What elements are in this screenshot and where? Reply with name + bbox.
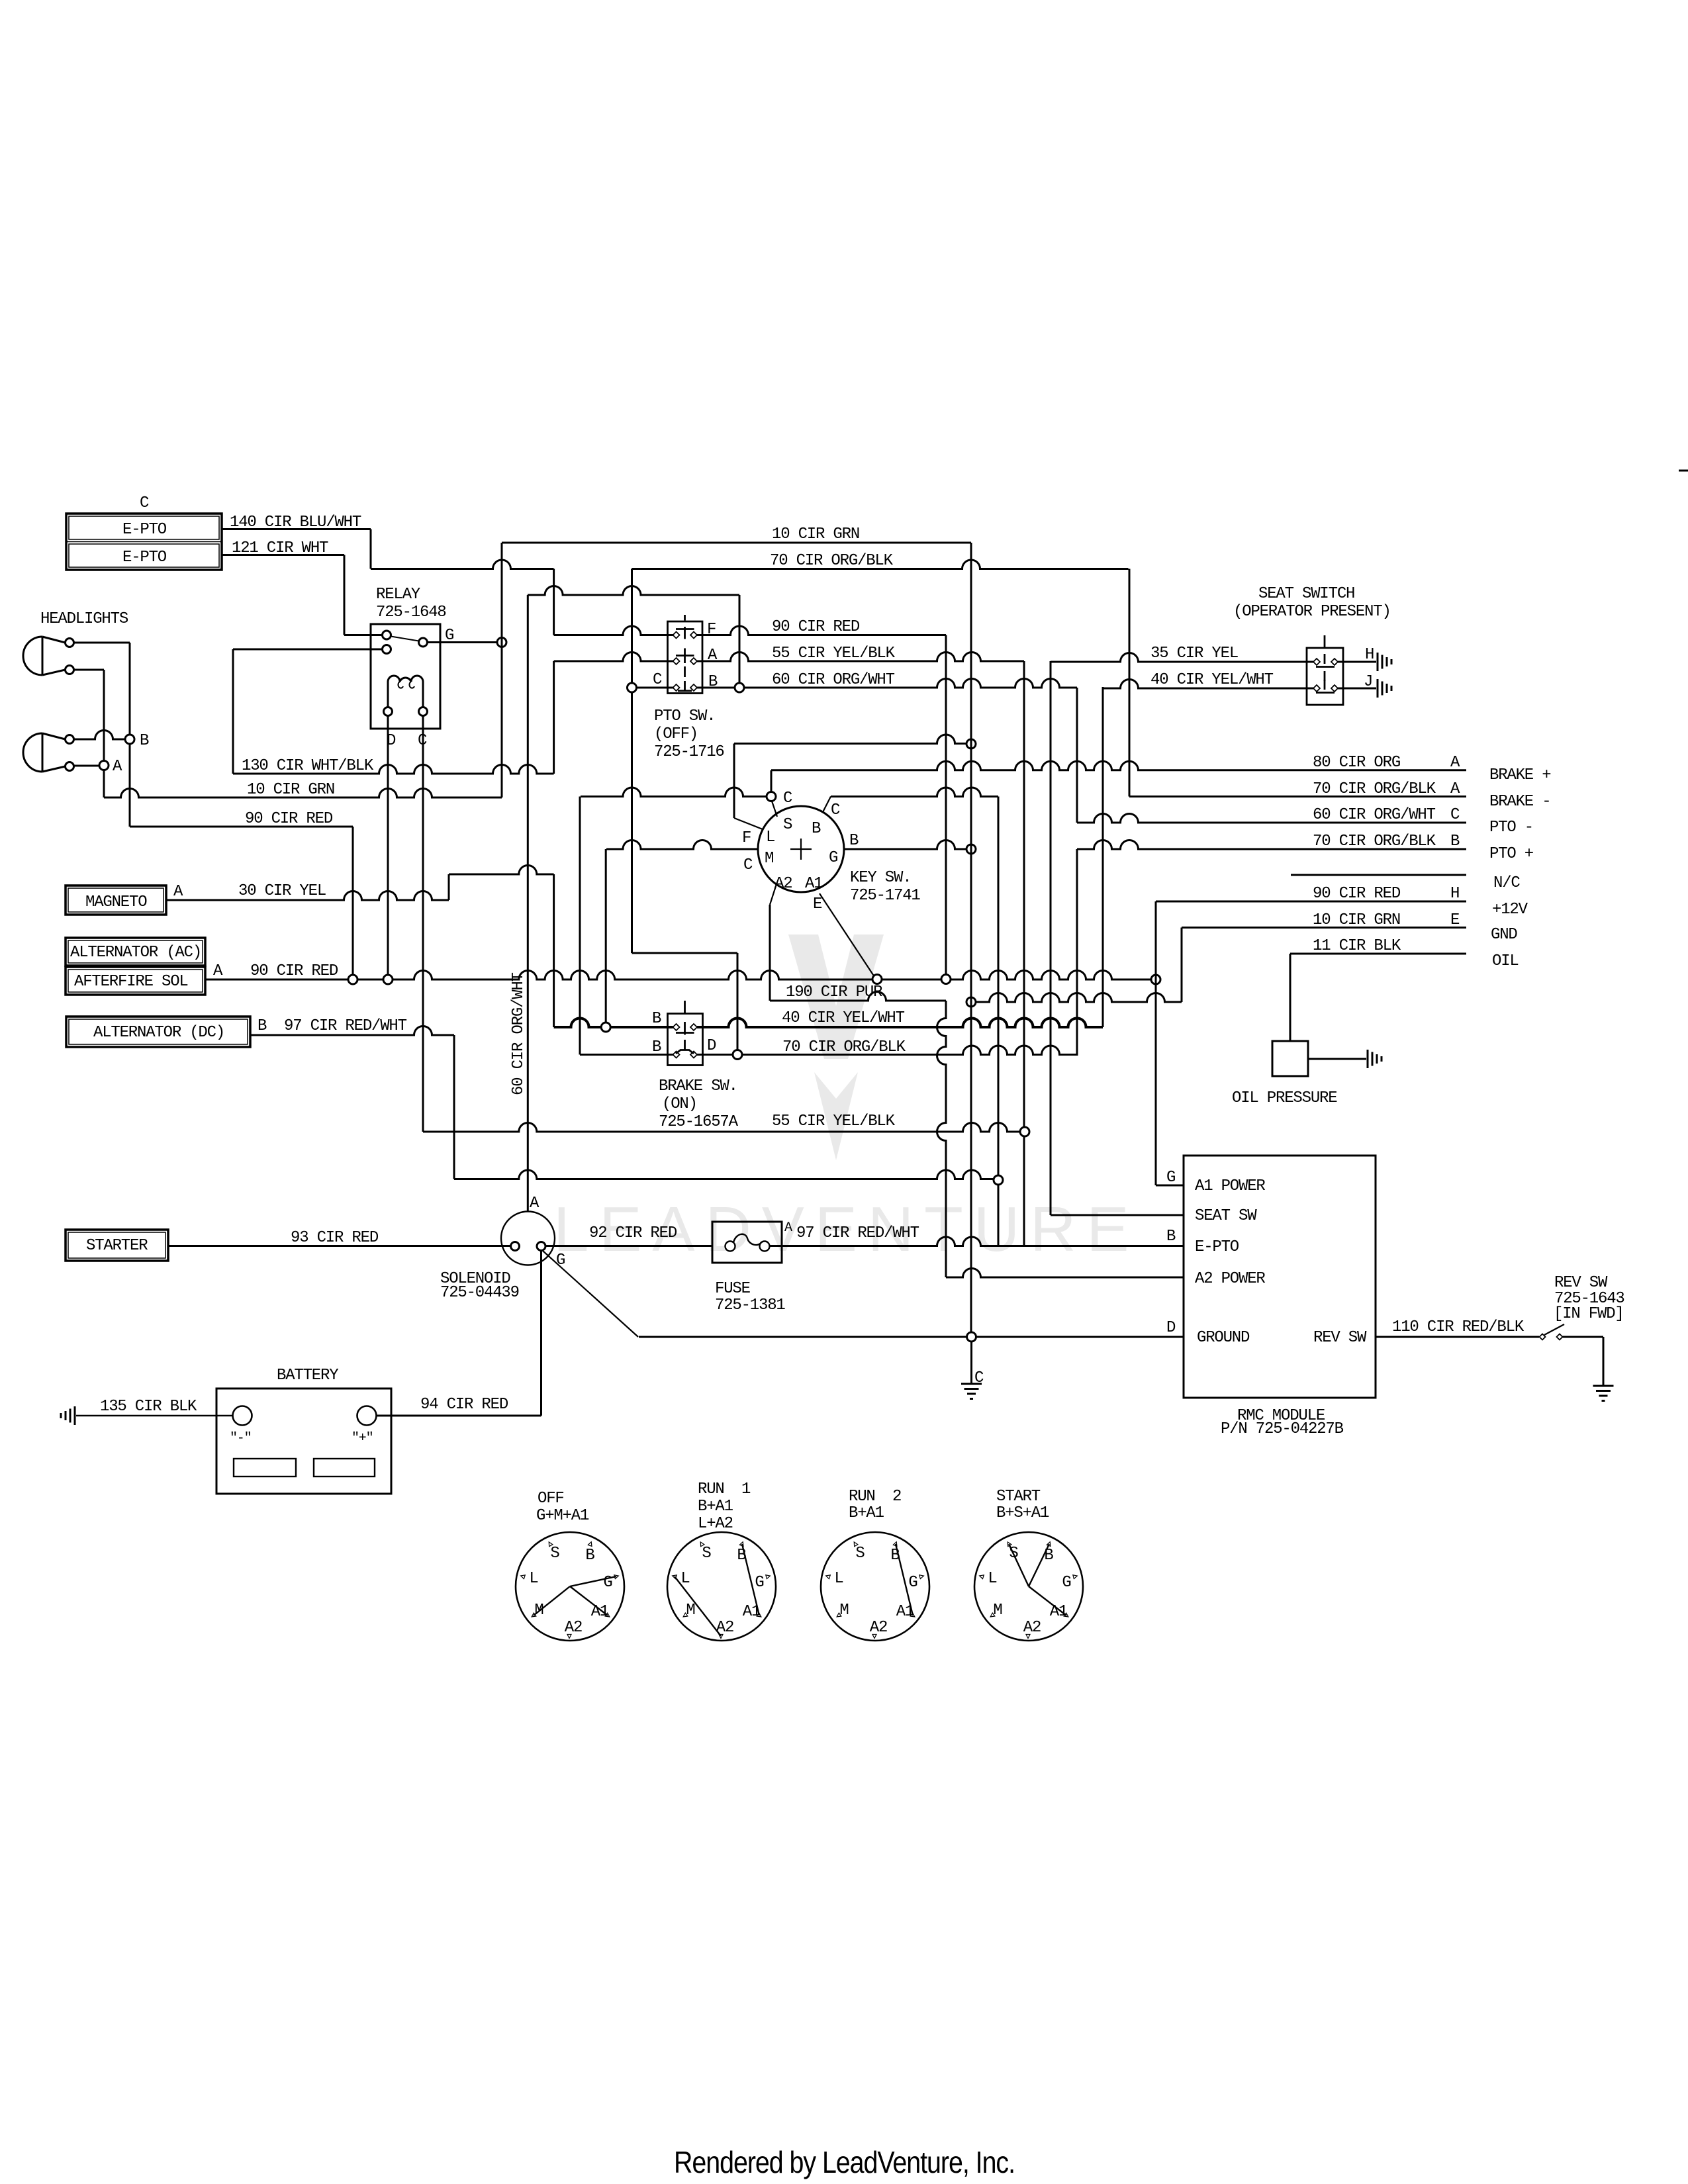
node junction 97-net/C-net [994, 1175, 1003, 1185]
node junction green bus y1514 [966, 997, 976, 1007]
svg-text:40 CIR YEL/WHT: 40 CIR YEL/WHT [1150, 671, 1274, 689]
seat-J bus vertical x1666 [1102, 687, 1104, 1027]
relay blade [391, 637, 419, 641]
svg-text:A2: A2 [774, 875, 792, 893]
brake contact B2 right [690, 1052, 697, 1058]
svg-text:F: F [742, 829, 751, 847]
relay coil arcs [388, 676, 423, 682]
svg-text:725-1716: 725-1716 [654, 743, 724, 761]
green-bus wire y1514 [971, 993, 1182, 1003]
battery cell 2 [314, 1459, 375, 1477]
key C top wire from x877 [581, 788, 767, 797]
key L diagonal [734, 818, 763, 829]
seat H contact bar [1316, 666, 1335, 668]
relay blade contact circle [419, 638, 428, 647]
svg-text:B: B [849, 832, 859, 850]
wire 10 CIR GRN lower [104, 789, 502, 798]
svg-text:HEADLIGHTS: HEADLIGHTS [40, 610, 128, 628]
earth ground center [961, 1383, 982, 1385]
svg-text:PTO SW.: PTO SW. [654, 707, 715, 725]
svg-text:S: S [550, 1545, 559, 1563]
oil pressure sender box [1272, 1041, 1308, 1076]
headlight 1 bottom wire [74, 669, 105, 671]
watermark LeadVenture V logo [788, 934, 884, 1160]
vertical 140-net to PTO F [553, 569, 555, 635]
seat J contact bar [1316, 692, 1335, 694]
orange bus jog wire y1440 [632, 952, 738, 954]
headlight 1 top wire [74, 642, 130, 644]
svg-text:725-1741: 725-1741 [850, 887, 920, 905]
svg-text:G: G [908, 1574, 917, 1592]
svg-text:80 CIR ORG: 80 CIR ORG [1313, 754, 1400, 772]
node C junction on orange bus [628, 683, 637, 692]
svg-text:(OFF): (OFF) [654, 725, 698, 743]
wire 60 CIR ORG/WHT PTO- row [1077, 814, 1466, 823]
wire 93 CIR RED [168, 1245, 511, 1247]
relay coil pin D [384, 707, 393, 716]
wire 30 CIR YEL [166, 891, 449, 901]
wire 40 CIR YEL/WHT to seat J [1103, 680, 1313, 689]
svg-text:ALTERNATOR (AC): ALTERNATOR (AC) [70, 944, 201, 962]
97-net vertical x686 [453, 1035, 455, 1179]
wire SEAT SW [1051, 1214, 1184, 1216]
svg-text:B: B [258, 1017, 267, 1035]
node junction x916 on interlock wire [601, 1023, 610, 1032]
wire 30 CIR YEL riser [448, 874, 450, 900]
red bus vertical x1429 upper [945, 635, 947, 976]
+12V riser vertical x1746 [1155, 901, 1157, 1185]
svg-text:90 CIR RED: 90 CIR RED [772, 618, 860, 636]
relay coil right lead [422, 682, 424, 707]
svg-text:A: A [530, 1195, 539, 1212]
key C topright wire y1203 [831, 788, 998, 797]
wire 70 CIR ORG/BLK BRAKE- row [1129, 796, 1466, 797]
rev switch blade [1544, 1324, 1564, 1335]
PTO A contact right [690, 658, 697, 664]
brake switch actuator dashed line [684, 1001, 686, 1013]
svg-text:B+S+A1: B+S+A1 [996, 1504, 1049, 1522]
wire GROUND row [639, 1336, 1184, 1338]
wire 94 CIR RED [377, 1415, 541, 1417]
seat contact J right [1331, 685, 1338, 692]
svg-text:E: E [1450, 911, 1460, 929]
relay 725-1648 box [371, 624, 440, 729]
battery cell 1 [234, 1459, 296, 1477]
wire 70 CIR ORG/BLK PTO+ row [1077, 841, 1466, 850]
svg-text:RELAY: RELAY [376, 586, 420, 604]
orange/black bus vertical x1706 [1129, 569, 1131, 797]
PTO C row wire [637, 687, 673, 689]
svg-text:KEY SW.: KEY SW. [850, 869, 911, 887]
seat-H bus vertical x1587 [1050, 661, 1052, 1215]
svg-text:A2 POWER: A2 POWER [1195, 1270, 1265, 1288]
STARTER box [66, 1230, 168, 1261]
svg-text:BATTERY: BATTERY [277, 1367, 338, 1385]
wire 70 CIR ORG/BLK brake D row [697, 1046, 1077, 1055]
PTO switch actuator dashed line [684, 615, 686, 621]
svg-text:C: C [743, 856, 753, 874]
vertical wire headlight1-bottom to 10 CIR GRN [103, 670, 105, 797]
node junction L/green bus [966, 739, 976, 749]
relay coil left lead [387, 682, 389, 707]
70-net vertical x1627 lower [1076, 849, 1078, 1056]
GND riser vertical x1785 [1181, 928, 1183, 1003]
svg-text:40 CIR YEL/WHT: 40 CIR YEL/WHT [782, 1009, 905, 1027]
svg-text:G: G [603, 1574, 612, 1592]
wire 140 CIR BLU/WHT from E-PTO [222, 528, 371, 530]
node junction 90red/+12V riser [1151, 975, 1160, 984]
svg-text:G: G [1166, 1169, 1175, 1187]
svg-text:C: C [140, 494, 149, 512]
orange bus vertical x954 [631, 569, 633, 954]
svg-text:OFF: OFF [538, 1490, 564, 1508]
node junction 90red/x586 [383, 975, 393, 984]
svg-text:SEAT SWITCH: SEAT SWITCH [1258, 585, 1354, 603]
svg-text:BRAKE +: BRAKE + [1489, 766, 1551, 784]
svg-text:B: B [585, 1547, 594, 1565]
E-PTO connector box (outer) [66, 514, 222, 570]
brake B1 contact bar [676, 1032, 694, 1034]
svg-text:B: B [652, 1010, 661, 1028]
wire 92 CIR RED [545, 1245, 712, 1247]
svg-text:G: G [445, 627, 453, 645]
green bus vertical upper [501, 543, 503, 797]
brake B2 contact bar [676, 1050, 694, 1054]
svg-text:E: E [813, 895, 822, 913]
svg-text:H: H [1450, 885, 1459, 903]
wire 135 CIR BLK [76, 1415, 233, 1416]
svg-text:97 CIR RED/WHT: 97 CIR RED/WHT [284, 1017, 407, 1035]
ground drop below junction [970, 1342, 972, 1384]
key position OFF diagram [516, 1532, 624, 1641]
vertical wire headlight1-top through node B [129, 643, 131, 827]
brake D drop vertical x1114 [737, 953, 739, 1050]
brake contact B2 left [673, 1052, 680, 1058]
battery chassis ground [74, 1406, 76, 1425]
svg-text:70 CIR ORG/BLK: 70 CIR ORG/BLK [1313, 833, 1436, 850]
interlock wire y1552 left [554, 1019, 673, 1028]
seat switch actuator dashed line [1324, 635, 1326, 647]
svg-text:BRAKE SW.: BRAKE SW. [659, 1077, 737, 1095]
wire +12V row [1156, 901, 1466, 903]
svg-text:B: B [1044, 1547, 1053, 1565]
svg-text:60 CIR ORG/WHT: 60 CIR ORG/WHT [510, 972, 528, 1095]
svg-text:A1 POWER: A1 POWER [1195, 1177, 1265, 1195]
wire 121 CIR WHT from E-PTO [222, 554, 344, 556]
svg-text:A: A [213, 962, 223, 980]
headlight 1 symbol [23, 637, 42, 675]
oil sender drop vertical x1949 [1289, 954, 1291, 1041]
page mark dash top right [1679, 470, 1688, 472]
svg-text:PTO +: PTO + [1489, 845, 1534, 863]
key M wire [606, 841, 758, 850]
wire 70 CIR ORG/BLK top [632, 560, 1129, 569]
rev switch contact right [1557, 1334, 1563, 1340]
svg-text:OIL: OIL [1492, 952, 1519, 970]
MAGNETO box [66, 886, 166, 915]
svg-text:D: D [1166, 1319, 1176, 1337]
relay coil pin C [419, 707, 428, 716]
headlight 2 bottom wire to node A [74, 765, 100, 767]
wire A1 POWER [1156, 1185, 1184, 1187]
node junction 90red/x533 [348, 975, 357, 984]
svg-text:L+A2: L+A2 [698, 1515, 733, 1533]
node junction brake D [733, 1050, 742, 1060]
seat H ground wire [1338, 661, 1376, 663]
svg-text:MAGNETO: MAGNETO [85, 893, 147, 911]
relay C vertical down [422, 716, 424, 1132]
interlock wire y1552 right [697, 1019, 1103, 1028]
svg-text:C: C [653, 671, 662, 689]
key C top riser [771, 770, 773, 792]
svg-text:B: B [1166, 1228, 1176, 1246]
svg-text:L: L [529, 1570, 538, 1588]
key switch center cross [790, 848, 812, 850]
svg-text:A1: A1 [805, 875, 823, 893]
rev switch right wire [1563, 1336, 1604, 1338]
svg-text:E-PTO: E-PTO [122, 549, 167, 567]
svg-text:725-04439: 725-04439 [440, 1284, 519, 1302]
svg-text:(ON): (ON) [662, 1095, 697, 1113]
svg-text:FUSE: FUSE [715, 1280, 751, 1298]
svg-text:SEAT SW: SEAT SW [1195, 1207, 1257, 1225]
key A2 net vertical x1163 [769, 905, 771, 1001]
branch vertical x1117 to PTO C row [739, 595, 741, 683]
svg-text:M: M [839, 1602, 848, 1619]
E-PTO box 2 inner [69, 544, 219, 567]
PTO B contact right [690, 684, 697, 691]
orange/white bus vertical x797 [527, 595, 529, 1212]
wire 140 horizontal segment y859 [371, 560, 554, 569]
relay pin2 wire left [233, 649, 383, 651]
svg-text:REV SW: REV SW [1313, 1329, 1367, 1347]
svg-text:55 CIR YEL/BLK: 55 CIR YEL/BLK [772, 1113, 896, 1130]
svg-text:P/N 725-04227B: P/N 725-04227B [1221, 1420, 1344, 1438]
svg-text:70 CIR ORG/BLK: 70 CIR ORG/BLK [770, 552, 894, 570]
svg-text:L: L [988, 1570, 996, 1588]
svg-text:90 CIR RED: 90 CIR RED [245, 810, 333, 828]
fuse element [733, 1234, 761, 1245]
svg-text:B+A1: B+A1 [698, 1498, 733, 1516]
svg-text:E-PTO: E-PTO [1195, 1238, 1239, 1256]
svg-text:70 CIR ORG/BLK: 70 CIR ORG/BLK [1313, 780, 1436, 798]
svg-text:130 CIR WHT/BLK: 130 CIR WHT/BLK [242, 757, 374, 775]
seat J chassis ground [1377, 679, 1379, 698]
headlight 2 top wire to node B [74, 731, 126, 740]
svg-text:A: A [113, 758, 122, 776]
green bus vertical x1467 long [970, 543, 972, 1337]
wire GND row [1182, 927, 1466, 929]
svg-text:90 CIR RED: 90 CIR RED [1313, 885, 1401, 903]
svg-text:93 CIR RED: 93 CIR RED [291, 1229, 379, 1247]
wire 60 CIR ORG/WHT branch y899 [528, 586, 739, 596]
battery negative terminal [233, 1406, 252, 1426]
svg-text:A: A [784, 1220, 792, 1236]
key position START diagram [974, 1532, 1083, 1641]
key C net wire y1164 80 CIR ORG [771, 761, 1466, 770]
svg-text:G: G [755, 1574, 763, 1592]
brake switch box [668, 1014, 703, 1066]
magneto-kill vertical x837 [553, 874, 555, 1027]
svg-text:60 CIR ORG/WHT: 60 CIR ORG/WHT [1313, 806, 1436, 824]
key position RUN 2 diagram [821, 1532, 929, 1641]
wire 190 CIR PUR [770, 992, 946, 1001]
svg-text:B: B [812, 820, 821, 838]
brake contact B1 left [673, 1024, 680, 1030]
svg-text:97 CIR RED/WHT: 97 CIR RED/WHT [796, 1224, 919, 1242]
svg-text:REV SW: REV SW [1554, 1274, 1608, 1292]
oil pressure ground wire [1308, 1058, 1366, 1060]
wire 94 CIR RED riser [540, 1251, 542, 1416]
svg-text:L: L [766, 829, 774, 846]
node junction 55-net [1020, 1127, 1029, 1136]
svg-text:E-PTO: E-PTO [122, 521, 167, 539]
svg-text:D: D [707, 1037, 716, 1055]
wire 130 CIR WHT/BLK [233, 765, 554, 774]
vertical 130-net to PTO A row [553, 661, 555, 774]
key position RUN 1 diagram [667, 1532, 776, 1641]
PTO B contact bridge [678, 690, 692, 692]
svg-text:G: G [1062, 1574, 1070, 1592]
svg-text:70 CIR ORG/BLK: 70 CIR ORG/BLK [782, 1038, 906, 1056]
brake B2 row left wire [580, 1054, 673, 1056]
svg-text:"+": "+" [352, 1431, 373, 1446]
wire 121 into relay pin [344, 634, 383, 636]
svg-text:90 CIR RED: 90 CIR RED [250, 962, 338, 980]
wire 10 CIR GRN top [502, 542, 971, 544]
svg-text:L: L [834, 1570, 843, 1588]
svg-text:Rendered by LeadVenture, Inc.: Rendered by LeadVenture, Inc. [674, 2145, 1015, 2179]
wire 97 CIR RED/WHT to RMC E-PTO [769, 1237, 1184, 1246]
svg-text:B: B [140, 732, 149, 750]
earth ground rev switch [1593, 1385, 1614, 1387]
battery box [216, 1388, 391, 1494]
wire N/C row [1291, 874, 1466, 876]
wire 97 CIR RED/WHT [250, 1026, 454, 1036]
svg-text:RUN 1: RUN 1 [698, 1480, 751, 1498]
PTO F contact right [690, 632, 697, 639]
wire 30 CIR YEL upper segment [449, 866, 554, 875]
red branch vertical x533 [352, 827, 354, 975]
svg-text:G+M+A1: G+M+A1 [536, 1507, 589, 1525]
svg-text:C: C [783, 790, 792, 807]
seat contact J left [1313, 685, 1320, 692]
relay G output wire [428, 641, 498, 643]
key M net vertical x916 [605, 849, 607, 1023]
svg-text:STARTER: STARTER [86, 1237, 148, 1255]
svg-text:A: A [1450, 780, 1460, 798]
PTO A row left wire [554, 653, 673, 662]
PTO F row right wire 90 CIR RED [697, 626, 946, 635]
relay D vertical down [387, 716, 389, 976]
svg-text:GROUND: GROUND [1197, 1329, 1250, 1347]
node C junction above key [767, 792, 776, 801]
svg-text:55 CIR YEL/BLK: 55 CIR YEL/BLK [772, 645, 896, 662]
seat contact H right [1331, 659, 1338, 665]
key switch circle [758, 806, 844, 892]
key L riser vertical [733, 744, 735, 819]
relay pin2 vertical down [232, 649, 234, 774]
svg-text:START: START [996, 1488, 1041, 1506]
60-net vertical x1627 upper [1076, 688, 1078, 823]
svg-text:C: C [1450, 806, 1460, 824]
brake contact B1 right [690, 1024, 697, 1030]
ALTERNATOR (AC) box [66, 938, 205, 966]
svg-text:135 CIR BLK: 135 CIR BLK [100, 1398, 197, 1416]
svg-text:B: B [652, 1038, 661, 1056]
seat J ground wire [1338, 688, 1376, 690]
svg-text:10 CIR GRN: 10 CIR GRN [247, 781, 334, 799]
wire 11 CIR BLK OIL row [1290, 953, 1466, 955]
key A2 diagonal [770, 886, 776, 905]
svg-text:+12V: +12V [1492, 901, 1528, 919]
svg-text:30 CIR YEL: 30 CIR YEL [238, 882, 326, 900]
svg-text:94 CIR RED: 94 CIR RED [420, 1396, 508, 1414]
rev ground drop [1603, 1337, 1605, 1386]
node junction ground [967, 1332, 976, 1342]
solenoid right pin [537, 1242, 545, 1251]
C-net vertical x1508 [998, 797, 1000, 1247]
svg-text:B+A1: B+A1 [849, 1504, 884, 1522]
svg-text:725-1657A: 725-1657A [659, 1113, 739, 1131]
svg-text:GND: GND [1491, 926, 1517, 944]
solenoid left pin [511, 1242, 520, 1251]
RMC module box [1184, 1156, 1376, 1398]
svg-text:10 CIR GRN: 10 CIR GRN [1313, 911, 1400, 929]
AFTERFIRE SOL box [66, 967, 205, 995]
E-PTO box 1 inner [69, 516, 219, 539]
fuse left pin [726, 1242, 735, 1251]
svg-text:S: S [783, 816, 792, 834]
svg-text:B: B [1450, 833, 1460, 850]
wire 90 CIR RED main [205, 971, 1156, 980]
svg-text:A: A [173, 883, 183, 901]
svg-text:C: C [831, 801, 840, 819]
svg-text:725-1648: 725-1648 [376, 604, 446, 621]
wire A2 POWER [946, 1269, 1184, 1278]
solenoid G diagonal [543, 1251, 638, 1337]
PTO B contact left [673, 684, 680, 691]
headlight 2 symbol [23, 733, 42, 772]
svg-text:PTO -: PTO - [1489, 819, 1533, 837]
svg-text:M: M [686, 1602, 694, 1619]
ALTERNATOR (DC) box [66, 1017, 250, 1047]
svg-text:"-": "-" [230, 1431, 251, 1446]
svg-text:11 CIR BLK: 11 CIR BLK [1313, 937, 1401, 955]
svg-text:60 CIR ORG/WHT: 60 CIR ORG/WHT [772, 671, 895, 689]
key C stub to circle [772, 801, 777, 817]
node junction G/green bus [966, 844, 976, 854]
fuse right pin [760, 1242, 770, 1251]
svg-text:M: M [765, 850, 773, 868]
svg-text:S: S [855, 1545, 865, 1563]
PTO switch box [668, 621, 703, 694]
wire 90 CIR RED headlight branch [130, 826, 353, 828]
svg-text:AFTERFIRE SOL: AFTERFIRE SOL [74, 973, 188, 991]
PTO F contact bar [676, 628, 694, 630]
yellow bus vertical x1547 [1023, 661, 1025, 1246]
svg-text:10 CIR GRN: 10 CIR GRN [772, 525, 859, 543]
PTO A row right wire 55 CIR YEL/BLK [697, 653, 1024, 662]
battery positive terminal [357, 1406, 377, 1426]
svg-text:ALTERNATOR (DC): ALTERNATOR (DC) [93, 1024, 224, 1042]
PTO F row left wire [554, 626, 673, 635]
node junction 90red/x1429 [941, 975, 951, 984]
A2-net vertical x1429 lower [937, 1001, 947, 1277]
seat switch box [1307, 648, 1343, 705]
svg-text:G: G [829, 849, 837, 867]
key L wire to green bus [734, 735, 966, 744]
